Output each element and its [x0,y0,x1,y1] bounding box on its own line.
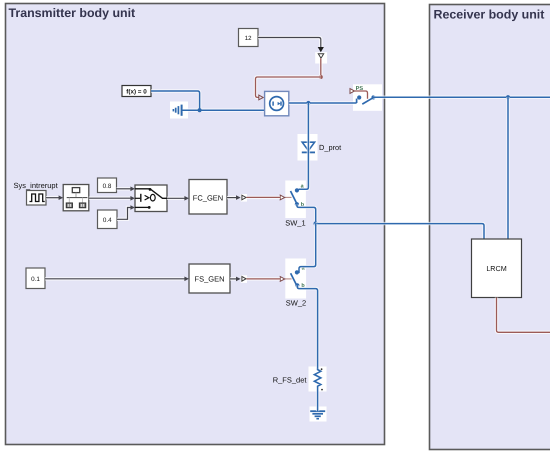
constant block 12 [239,29,259,47]
wire output junction down through diode to SW_1 a [297,103,308,190]
wire resistor to ground [316,388,319,412]
node SW_1 junction [314,221,318,225]
pulse generator [27,191,47,206]
switch block gt0 [135,185,167,212]
port triangle into voltage source [259,95,263,100]
svg-text:FS_GEN: FS_GEN [194,275,224,284]
wire receiver junction down to LRCM [506,97,509,239]
wire LRCM output red [497,298,550,333]
svg-text:Transmitter body unit: Transmitter body unit [9,6,136,20]
wire FC converter to SW_1 control [246,196,280,199]
diode D_prot [298,134,342,161]
subsystem FS_GEN [189,264,230,293]
wire PS switch to receiver [374,95,550,98]
wire ground to voltage source [183,108,265,111]
converter S-PS under 12 [315,52,327,63]
wire 0.1 to FS_GEN [45,277,189,282]
wire SW_2 b to resistor [297,285,317,368]
resistor R_FS_det [273,367,327,392]
svg-text:LRCM: LRCM [486,264,506,273]
switch SW_1 body [280,181,306,228]
block LRCM [472,239,522,298]
constant block 0.4 [98,210,118,229]
wire flipflop to switch [89,196,135,201]
wire junction to receiver LRCM [316,224,484,239]
switch SW_2 contacts [291,270,300,287]
subsystem box Transmitter body unit [6,4,385,445]
wire PS junction to voltage source control [256,77,321,97]
svg-text:SW_1: SW_1 [285,219,305,228]
wire 0.4 to switch [117,205,135,219]
svg-text:R_FS_det: R_FS_det [273,375,308,384]
svg-text:D_prot: D_prot [319,143,341,152]
wire 12 to converter [258,38,324,53]
svg-text:FC_GEN: FC_GEN [193,194,223,203]
constant block 0.1 [26,268,45,289]
wire PS from converter down to junction [319,58,322,77]
wire junction down to SW_2 a [297,224,316,273]
switch PS contacts [357,95,376,104]
svg-text:f(x) = 0: f(x) = 0 [126,89,147,96]
svg-text:0.1: 0.1 [31,276,40,283]
wire FS converter to SW_2 control [246,277,280,280]
flipflop block [63,185,89,211]
wire 0.8 to switch [117,187,135,192]
wire FS_GEN to converter [230,277,241,282]
label Sys_intrerupt [14,181,59,190]
switch PS body [350,84,382,111]
ground electrical reference left [170,102,188,119]
svg-text:12: 12 [245,35,252,42]
switch SW_2 body [280,259,306,308]
wire voltage source output [289,101,357,104]
wire f(x)=0 to node [151,91,200,110]
converter S-PS FS [241,275,247,283]
switch SW_1 contacts [291,188,300,206]
svg-text:Sys_intrerupt: Sys_intrerupt [14,181,59,190]
node junction f(x) ground [198,108,202,112]
svg-text:0.8: 0.8 [103,183,112,190]
ground bottom [310,407,327,422]
svg-text:0.4: 0.4 [103,217,112,224]
svg-text:Receiver body unit: Receiver body unit [434,8,545,22]
wire pulse to flipflop [46,195,63,200]
converter S-PS FC [241,194,247,202]
constant block 0.8 [98,178,117,193]
node output junction [306,101,310,105]
voltage source U1 [265,91,289,115]
svg-text:SW_2: SW_2 [286,299,306,308]
wire FC_GEN to converter [227,195,241,200]
node PS junction [319,75,323,79]
wire switch to FC_GEN [167,196,189,201]
node receiver top junction [506,95,510,99]
wire SW_1 b to junction [297,204,316,223]
subsystem FC_GEN [189,180,227,215]
subsystem box Receiver body unit [430,5,550,450]
solver block f(x)=0 [122,86,151,97]
